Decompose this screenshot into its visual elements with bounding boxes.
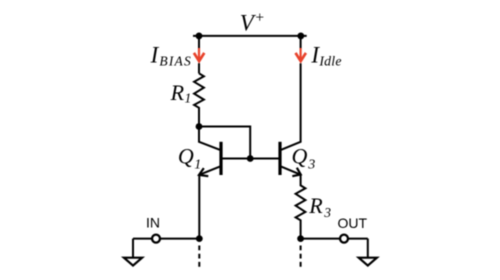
svg-text:1: 1 (185, 91, 192, 106)
svg-text:R: R (170, 80, 185, 105)
svg-text:Q: Q (292, 143, 308, 168)
svg-text:V: V (240, 11, 257, 36)
svg-text:Q: Q (178, 143, 194, 168)
svg-text:I: I (150, 43, 160, 68)
svg-text:R: R (308, 193, 323, 218)
svg-text:3: 3 (307, 158, 315, 173)
svg-text:+: + (255, 10, 264, 27)
svg-text:3: 3 (323, 205, 331, 220)
svg-text:OUT: OUT (338, 215, 368, 231)
svg-text:1: 1 (194, 158, 201, 173)
svg-text:Idle: Idle (318, 54, 341, 69)
svg-text:BIAS: BIAS (159, 54, 192, 69)
svg-text:IN: IN (146, 215, 160, 231)
